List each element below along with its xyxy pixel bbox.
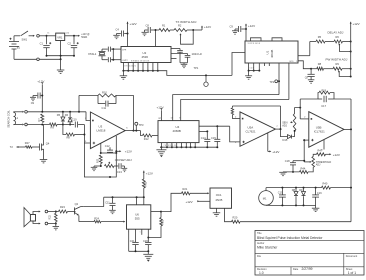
svg-text:C18: C18 — [285, 159, 290, 163]
node VIN — [45, 35, 56, 37]
svg-text:4N35: 4N35 — [215, 198, 222, 202]
wire meter rail top — [266, 187, 322, 189]
title block text file — [257, 255, 357, 258]
resistor R7 — [37, 114, 44, 123]
ground (C22) — [109, 210, 116, 213]
+12V arrow (U2 supply) — [127, 22, 137, 47]
svg-text:SW1: SW1 — [22, 38, 28, 42]
svg-text:R15: R15 — [143, 181, 147, 186]
svg-text:1 2 3: 1 2 3 — [250, 68, 254, 70]
resistor R5 — [310, 35, 325, 43]
title block frame — [255, 231, 364, 276]
ground (threshold) — [279, 172, 287, 176]
wire U3 V+ pin — [115, 134, 119, 153]
ground (meter) — [312, 205, 320, 211]
capacitor C12 (bias) — [100, 143, 118, 154]
svg-text:B1: B1 — [17, 46, 21, 50]
svg-text:R5: R5 — [318, 35, 322, 39]
svg-text:R27: R27 — [25, 141, 30, 145]
+12V arrow (front end) — [37, 80, 44, 112]
potentiometer R2 TX WIDTH ADJ — [170, 20, 197, 44]
meter M1 — [259, 188, 274, 206]
svg-text:D6: D6 — [65, 113, 69, 117]
resistor R44 — [300, 166, 309, 173]
svg-text:+12V: +12V — [248, 24, 255, 28]
svg-text:SEARCH COIL: SEARCH COIL — [7, 110, 11, 128]
svg-text:13: 13 — [171, 117, 173, 119]
wire 555 supply rail — [104, 196, 145, 198]
wire VR1 out — [65, 35, 79, 37]
svg-text:R47: R47 — [318, 148, 323, 152]
svg-text:1.0: 1.0 — [259, 271, 264, 275]
svg-text:555: 555 — [135, 217, 140, 221]
wire U2 pin out A — [171, 48, 180, 50]
capacitor C10 (series) — [72, 118, 85, 128]
svg-text:R20: R20 — [233, 215, 238, 219]
wire rx bottom rail — [27, 124, 49, 126]
svg-text:R9: R9 — [336, 62, 340, 66]
op-amp U5A CL7621 — [235, 112, 278, 146]
ground (U4) — [156, 147, 166, 157]
svg-text:C15: C15 — [211, 136, 216, 140]
capacitor C8 — [145, 23, 157, 33]
ground (C13 offset) — [122, 168, 128, 171]
diode D5 — [57, 112, 65, 126]
svg-text:C8: C8 — [146, 23, 150, 27]
svg-text:OFFSET ADJ: OFFSET ADJ — [115, 158, 132, 162]
svg-text:OUT2: OUT2 — [122, 60, 128, 62]
svg-text:D9: D9 — [299, 188, 303, 192]
capacitor C6b (osc bottom) — [102, 57, 121, 62]
svg-text:Document: Document — [346, 255, 358, 258]
+12V arrow (R15) — [143, 171, 153, 179]
ground (C3) — [30, 97, 36, 100]
pin numbers U2 bottom — [125, 66, 137, 68]
switch SW1 — [14, 31, 35, 42]
svg-text:U1: U1 — [266, 50, 270, 54]
test point TP2 — [270, 80, 280, 84]
svg-text:ADJ: ADJ — [282, 123, 288, 127]
wire to U5A plus — [230, 126, 240, 142]
svg-text:C19: C19 — [278, 191, 283, 195]
svg-text:C16: C16 — [317, 191, 322, 195]
regulator VR1 — [48, 32, 70, 56]
ground (U1) — [245, 71, 252, 80]
svg-text:C1: C1 — [40, 42, 44, 46]
svg-text:CL7621: CL7621 — [246, 129, 257, 133]
capacitor C1 — [40, 36, 52, 56]
svg-text:R2: R2 — [178, 23, 182, 27]
svg-text:TP3: TP3 — [139, 123, 144, 127]
wire Q2 collector — [83, 197, 103, 206]
svg-text:R21: R21 — [183, 187, 188, 191]
IC U4 4066B — [158, 117, 199, 142]
svg-text:VR1: VR1 — [57, 35, 63, 39]
ground (C8) — [142, 32, 148, 35]
diode D8 — [292, 188, 298, 206]
wire U6 to OC1 — [161, 193, 182, 211]
svg-text:5: 5 — [140, 232, 141, 234]
svg-text:8 7 6 5 4 3 2 1: 8 7 6 5 4 3 2 1 — [125, 66, 137, 68]
svg-text:ICL7621: ICL7621 — [314, 130, 325, 134]
svg-text:C14: C14 — [201, 136, 206, 140]
svg-text:C10: C10 — [72, 118, 77, 122]
svg-text:R10: R10 — [102, 91, 107, 95]
svg-text:4536: 4536 — [142, 55, 149, 59]
resistor R15 — [142, 179, 147, 197]
svg-text:1 of 1: 1 of 1 — [348, 271, 356, 275]
svg-text:8: 8 — [179, 117, 180, 119]
svg-text:PW WIDTH ADJ: PW WIDTH ADJ — [326, 58, 348, 62]
transistor Q4 MOSFET — [40, 125, 50, 160]
svg-text:C12: C12 — [105, 144, 110, 148]
capacitor C22 — [105, 197, 115, 210]
resistor R23 — [59, 205, 76, 213]
resistor R20 — [232, 215, 241, 223]
wires U6 bottom pins — [128, 229, 148, 235]
svg-text:TP1: TP1 — [194, 66, 199, 70]
resistor R21 — [182, 187, 210, 195]
wire osc tie — [112, 49, 114, 60]
wire U2 pin16 — [155, 30, 157, 47]
svg-text:+12V: +12V — [130, 22, 137, 26]
speaker LS1 — [24, 208, 36, 227]
+12V arrow (threshold) — [326, 153, 340, 157]
potentiometer R45 THRESHOLD ADJ — [304, 157, 331, 172]
connector J1 pin - — [37, 58, 62, 61]
capacitor C2 — [68, 36, 79, 56]
wire meter rail bottom — [266, 204, 316, 206]
ground (supply) — [57, 59, 65, 73]
svg-text:R25: R25 — [161, 219, 165, 224]
capacitor C6 — [177, 49, 183, 63]
+12V arrow (OC1 in) — [186, 200, 211, 204]
feedback capacitor C17 — [318, 96, 334, 108]
battery B1 — [9, 36, 21, 60]
capacitor C4 — [116, 27, 128, 36]
wire U6 out pin — [151, 211, 162, 213]
wire U5B minus — [300, 99, 309, 119]
wire rail to U1 — [232, 53, 245, 76]
potentiometer R9 PW WIDTH ADJ — [324, 58, 352, 78]
svg-text:D15: D15 — [283, 138, 288, 142]
svg-text:C9: C9 — [31, 101, 35, 105]
wire U2 pin out C — [171, 58, 177, 60]
svg-text:+12V: +12V — [353, 22, 360, 26]
wire U1 pin to sample rail — [288, 63, 290, 100]
resistor R1 — [156, 23, 171, 31]
wire U4 ground rail — [160, 146, 218, 148]
wire sample gate rail A — [173, 95, 279, 121]
svg-text:+12V: +12V — [37, 80, 44, 84]
svg-text:14: 14 — [296, 61, 298, 63]
svg-text:4066B: 4066B — [173, 129, 181, 133]
potentiometer R18 SEN ADJ — [282, 114, 296, 132]
ground (speaker) — [48, 224, 59, 230]
svg-text:+12V: +12V — [333, 153, 340, 157]
wires U4 bottom pins — [160, 143, 196, 149]
capacitor C7 — [185, 54, 191, 63]
connector J1 pin + — [37, 35, 45, 38]
svg-text:Q4: Q4 — [46, 142, 50, 146]
coil terminal top — [14, 111, 28, 114]
+12V rail (top right) — [350, 22, 360, 77]
+12V arrow (R2) — [193, 25, 211, 30]
wire U1 out pin — [298, 42, 310, 56]
wire sample gate rail B — [181, 100, 289, 121]
wire threshold bottom — [283, 171, 300, 173]
svg-text:C9: C9 — [230, 25, 234, 29]
resistor R17 — [25, 141, 40, 148]
wire U5A V+ pin — [267, 133, 269, 152]
svg-text:R8: R8 — [67, 135, 71, 139]
svg-text:R23: R23 — [60, 205, 65, 209]
svg-text:BCD: BCD — [290, 61, 295, 63]
svg-text:R7: R7 — [37, 118, 41, 122]
svg-text:Author: Author — [257, 242, 265, 245]
svg-text:+12V: +12V — [186, 200, 193, 204]
wire U2 pin out B — [171, 53, 188, 55]
capacitor C20 — [143, 234, 152, 252]
wire U5A out — [275, 128, 281, 130]
svg-text:D5: D5 — [57, 113, 61, 117]
svg-text:2/27/99: 2/27/99 — [302, 267, 313, 271]
wire U3 output — [125, 95, 140, 131]
coil terminal bottom — [14, 123, 28, 126]
svg-text:C2: C2 — [68, 42, 72, 46]
potentiometer R6 DELAY ADJ — [325, 31, 352, 53]
svg-text:ADJ: ADJ — [316, 164, 321, 167]
wires U1 bottom pins — [248, 63, 270, 72]
label 1024 Hz — [192, 52, 203, 56]
svg-text:R22: R22 — [49, 214, 52, 219]
svg-text:D8: D8 — [292, 188, 296, 192]
svg-text:Out: Out — [66, 32, 70, 35]
wire U4 out pin2 — [199, 130, 208, 132]
label SEARCH COIL — [7, 110, 11, 128]
wire U6 ground rail — [129, 234, 150, 253]
IC U2 4536 — [121, 47, 171, 63]
capacitor C5 (osc top) — [102, 47, 121, 52]
svg-text:Blind Squirrel Pulse Induction: Blind Squirrel Pulse Induction Metal Det… — [257, 236, 323, 240]
resistor R11 — [95, 155, 102, 166]
+12V arrow (U3 supply) — [116, 149, 132, 153]
svg-text:C17: C17 — [321, 104, 326, 108]
potentiometer R13 OFFSET ADJ — [100, 158, 132, 167]
svg-text:+12V: +12V — [204, 25, 211, 29]
svg-text:File: File — [257, 255, 262, 258]
capacitor C21 — [130, 234, 139, 252]
svg-text:C21: C21 — [130, 239, 135, 243]
svg-text:Mike Starcher: Mike Starcher — [257, 246, 278, 250]
capacitor C13 (offset) — [114, 163, 125, 174]
capacitor C3 (decoupling) — [31, 93, 44, 105]
wire to plus input — [83, 125, 90, 144]
diode D9 — [299, 188, 305, 206]
svg-text:1024 Hz: 1024 Hz — [192, 52, 203, 56]
resistor R12 — [141, 131, 159, 141]
wire audio bottom — [240, 188, 351, 222]
diode D6 — [65, 112, 72, 126]
wire diode junction — [63, 124, 74, 126]
capacitor C8b (pw filter) — [305, 69, 315, 80]
svg-text:1PH: 1PH — [122, 50, 126, 52]
capacitor C14 — [201, 131, 211, 147]
wires U6 top pins — [137, 197, 144, 205]
+12V arrow (U4 supply) — [157, 105, 164, 120]
wire feedback to out — [334, 99, 351, 129]
svg-text:4093B: 4093B — [270, 50, 274, 58]
capacitor C9 (U1 supply) — [230, 25, 247, 33]
inductor L1 search coil — [14, 112, 19, 124]
svg-text:Q2: Q2 — [75, 202, 79, 206]
svg-text:14: 14 — [160, 117, 162, 119]
resistor R40 — [322, 182, 353, 189]
svg-text:+12V: +12V — [157, 105, 164, 109]
ground (C9) — [232, 31, 238, 34]
svg-text:R9: R9 — [51, 126, 55, 130]
svg-text:R12: R12 — [144, 137, 149, 141]
speaker terminal bottom — [33, 221, 48, 225]
wire U5B plus — [303, 139, 309, 161]
resistor R25 — [147, 212, 164, 239]
ground rail wire — [14, 58, 37, 60]
resistor R8 (bias) — [63, 125, 85, 140]
op-amp U5B ICL7621 — [304, 112, 344, 148]
ground (U2 rail) — [120, 71, 128, 80]
speaker terminal top — [33, 210, 48, 214]
wire OC1 emitter — [216, 208, 218, 213]
svg-text:+12V @: +12V @ — [81, 34, 90, 36]
svg-text:13 12 11 10 9 8: 13 12 11 10 9 8 — [248, 43, 260, 45]
svg-text:+12V: +12V — [125, 149, 132, 153]
feedback network U5A — [231, 106, 280, 129]
resistor R22 — [49, 211, 58, 225]
svg-text:R26: R26 — [322, 90, 327, 93]
svg-text:R24: R24 — [94, 217, 99, 221]
wire to minus input — [86, 112, 90, 121]
wire control bus rail — [158, 71, 232, 76]
svg-text:+12V: +12V — [272, 150, 279, 154]
crystal XTAL1 — [88, 49, 106, 60]
svg-text:M1: M1 — [263, 196, 267, 200]
wire speaker top — [48, 211, 59, 213]
jumper U1 top A — [251, 38, 262, 41]
svg-text:In: In — [48, 33, 50, 35]
IC OC1 4N35 — [210, 188, 232, 208]
wire bias bottom loop — [84, 143, 116, 178]
label T2 — [10, 145, 26, 149]
capacitor C18 — [285, 159, 296, 173]
jumper U1 top B — [272, 38, 282, 41]
IC U6 555 — [127, 205, 151, 229]
title block text revision — [257, 267, 356, 275]
svg-text:+12V: +12V — [146, 171, 153, 175]
test point TP1 — [194, 66, 209, 87]
svg-text:R8: R8 — [318, 62, 322, 66]
svg-text:R40: R40 — [323, 182, 328, 186]
ground (U6) — [143, 251, 153, 261]
ground (Q4) — [40, 160, 48, 163]
svg-text:Title: Title — [257, 232, 262, 235]
svg-text:R44: R44 — [301, 166, 306, 170]
wire U5B V- pin — [321, 140, 324, 152]
wire rx top rail — [27, 111, 86, 113]
wire threshold rail — [293, 160, 305, 162]
+12V arrow (U1 supply) — [245, 24, 255, 42]
wire OC1 collector — [225, 208, 232, 221]
ground (C4) — [113, 35, 120, 38]
svg-text:OC1: OC1 — [216, 193, 222, 197]
IC U1 4093B — [245, 41, 298, 63]
capacitor C16 — [312, 188, 322, 206]
svg-text:C13: C13 — [117, 170, 122, 174]
test point TP3 — [135, 122, 144, 130]
feedback resistor R10 — [79, 91, 134, 112]
op-amp U3 LM318 — [85, 112, 128, 149]
wire pot top to minus — [295, 107, 302, 114]
feedback capacitor C11 — [98, 95, 116, 110]
ground (offset) — [91, 166, 101, 171]
resistor R9 (input) — [50, 123, 63, 130]
wire U5B out — [344, 128, 352, 187]
resistor R8 — [311, 62, 323, 70]
resistor R24 — [79, 217, 125, 223]
feedback resistor R26 — [300, 90, 334, 99]
resistor R47 — [313, 148, 325, 156]
title block text title — [257, 232, 323, 240]
title block text author — [257, 242, 278, 250]
svg-text:DELAY ADJ: DELAY ADJ — [328, 31, 344, 35]
ground (C8b) — [308, 80, 315, 83]
svg-text:C4: C4 — [116, 27, 120, 31]
+12V arrow (U5A supply) — [268, 150, 280, 154]
ground (C6 C7) — [180, 63, 188, 68]
svg-text:LM318: LM318 — [97, 129, 106, 133]
svg-text:50MA: 50MA — [81, 36, 87, 39]
wire filter rail — [46, 55, 76, 60]
svg-text:C20: C20 — [143, 239, 148, 243]
svg-text:C11: C11 — [102, 106, 107, 110]
svg-text:TX WIDTH ADJ: TX WIDTH ADJ — [176, 20, 197, 24]
svg-text:TP2: TP2 — [270, 81, 275, 84]
capacitor C19 — [278, 188, 286, 206]
wires U2 bottom pins — [122, 63, 158, 72]
svg-text:R6: R6 — [336, 35, 340, 39]
diode D15 — [281, 129, 295, 142]
svg-text:XTAL1: XTAL1 — [88, 52, 97, 56]
transistor Q2 — [74, 202, 83, 221]
wire U1 pin to delay rail — [278, 63, 280, 95]
svg-text:S R 8A C1 O1 O2 DO1: S R 8A C1 O1 O2 DO1 — [131, 59, 149, 62]
+12V supply out — [78, 34, 90, 39]
capacitor C15 — [211, 126, 220, 147]
wire U1 pin to pw row — [298, 61, 312, 70]
svg-text:R11: R11 — [95, 158, 99, 163]
wire U4 out pin1 — [199, 125, 230, 127]
svg-text:C11: C11 — [105, 200, 110, 204]
svg-text:R1: R1 — [162, 23, 166, 27]
svg-text:Date: Date — [293, 268, 299, 271]
ground (OC1) — [213, 213, 221, 216]
